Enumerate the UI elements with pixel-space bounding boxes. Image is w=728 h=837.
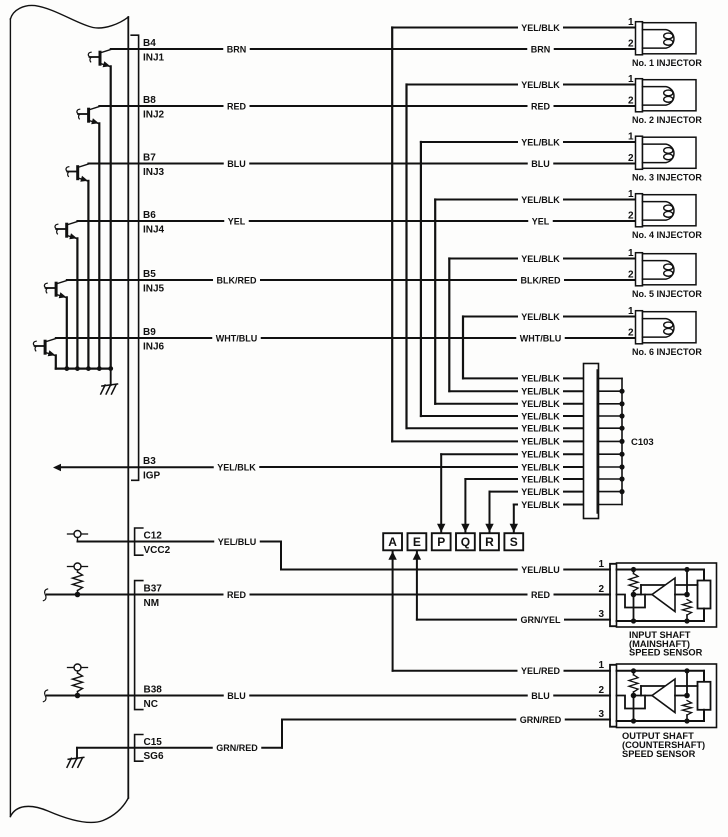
svg-text:BLU: BLU [227,691,246,701]
ECU pin B5/INJ5 label [143,269,165,294]
label YEL/BLK (C103 pin 6) [521,437,560,447]
svg-text:GRN/YEL: GRN/YEL [520,615,561,625]
ground (injector drivers) [101,369,118,394]
wire: Q4 emitter to ground rail [76,238,78,368]
label No. 6 INJECTOR [632,347,702,357]
svg-text:YEL/BLK: YEL/BLK [521,254,560,264]
ECU pin C15/SG6 label [144,737,164,762]
svg-text:YEL/BLU: YEL/BLU [218,537,257,547]
svg-text:SPEED SENSOR: SPEED SENSOR [629,648,703,658]
svg-text:BLU: BLU [227,159,246,169]
label YEL/BLK (C103 pin 4) [521,411,560,421]
svg-text:No. 2 INJECTOR: No. 2 INJECTOR [632,115,702,125]
svg-text:YEL/BLK: YEL/BLK [521,387,560,397]
svg-text:NM: NM [144,598,160,609]
svg-text:No. 5 INJECTOR: No. 5 INJECTOR [632,289,702,299]
svg-text:YEL/BLK: YEL/BLK [521,500,560,510]
node E (off-page connector box) [408,533,427,550]
svg-text:B37: B37 [144,584,163,595]
svg-text:1: 1 [598,660,604,671]
svg-text:B8: B8 [143,95,156,106]
C103 common bus (right side) [599,378,625,504]
connector bracket C15 [135,735,143,762]
wire BLK/RED: ECU B5 to No.5 injector pin 2 [67,275,636,285]
svg-text:YEL/BLK: YEL/BLK [521,474,560,484]
svg-text:BLK/RED: BLK/RED [217,275,257,285]
svg-text:1: 1 [628,131,634,142]
transistor Q6 (injector driver INJ6) [33,339,55,357]
label YEL/BLK (C103 pin 1) [521,374,560,384]
pin number 2 of No.5 injector [628,269,634,280]
wire: C103 pin 4 lead [564,415,584,417]
injector coil: No. 1 INJECTOR [636,22,697,55]
svg-text:1: 1 [628,17,634,28]
svg-text:2: 2 [628,210,634,221]
pull-up: supply circle + resistor (B37) [68,563,88,597]
svg-text:RED: RED [531,101,551,111]
label YEL/BLK (C103 pin 5) [521,424,560,434]
svg-text:INJ5: INJ5 [143,283,165,294]
wire YEL/BLK: C103 to box S [510,505,518,533]
svg-text:1: 1 [628,189,634,200]
wire: C103 pin 11 lead [564,504,584,506]
pin number 1 of No.1 injector [628,17,634,28]
svg-text:No. 4 INJECTOR: No. 4 INJECTOR [632,230,702,240]
svg-text:BRN: BRN [531,44,551,54]
svg-text:C103: C103 [631,437,654,448]
svg-text:Q: Q [461,535,470,549]
transistor Q2 (injector driver INJ2) [77,107,99,125]
wire YEL/BLK: C103 to box P [437,454,517,532]
svg-text:B3: B3 [143,456,156,467]
wire YEL/BLU (continues): step down and to sensor [281,542,610,575]
node P (off-page connector box) [432,533,451,550]
input shaft speed sensor U1 bracket [610,564,617,626]
ground (C15 SG6) [67,748,84,768]
svg-text:BRN: BRN [227,44,247,54]
node Q (off-page connector box) [456,533,475,550]
svg-text:3: 3 [598,609,604,620]
svg-text:INJ2: INJ2 [143,109,165,120]
svg-text:2: 2 [628,269,634,280]
wire: C103 pin 1 lead [564,377,584,379]
VCC2 internal supply circle (C12) [68,531,88,542]
ECU pin B6/INJ4 label [143,210,165,235]
pin number 1 of input shaft speed sensor U1 [598,559,604,570]
transistor Q5 (injector driver INJ5) [44,281,66,299]
svg-text:No. 6 INJECTOR: No. 6 INJECTOR [632,347,702,357]
wire: C103 pin 5 lead [564,427,584,429]
svg-text:NC: NC [144,699,158,710]
ECU pin B8/INJ2 label [143,95,165,120]
svg-text:B4: B4 [143,38,156,49]
pin number 1 of No.6 injector [628,306,634,317]
pin number 1 of No.4 injector [628,189,634,200]
svg-text:YEL/BLK: YEL/BLK [521,487,560,497]
svg-text:RED: RED [227,590,247,600]
svg-text:RED: RED [227,101,247,111]
wire YEL/BLK: C103 to box R [485,492,517,533]
wire GRN/RED: C15 SG6 to output shaft sensor pin 3 [77,743,282,753]
connector C103 body [584,364,599,519]
ECU pin B4/INJ1 label [143,38,165,63]
wire: Q5 emitter to ground rail [66,297,68,368]
wire YEL/RED: box A to output shaft sensor pin 1 [388,551,610,676]
node R (off-page connector box) [480,533,499,550]
connector bracket (B4-B3 pin group) [131,35,138,480]
label No. 4 INJECTOR [632,230,702,240]
pin number 2 of No.6 injector [628,327,634,338]
label No. 5 INJECTOR [632,289,702,299]
node: common emitter rail of Q1-Q6 [56,366,113,371]
wire YEL/BLK: No.1 injector pin 1 to C103 bus [392,23,635,442]
svg-text:VCC2: VCC2 [144,545,171,556]
svg-text:BLU: BLU [531,691,550,701]
wire YEL/BLK: B3 IGP to C103 (with off-page arrow) [53,462,517,472]
svg-text:YEL/BLK: YEL/BLK [217,462,256,472]
ECU pin B3/IGP label [143,456,161,481]
svg-text:B9: B9 [143,327,156,338]
svg-text:YEL: YEL [532,216,550,226]
svg-text:1: 1 [628,306,634,317]
pin number 2 of No.4 injector [628,210,634,221]
wire GRN/YEL: box E to input shaft sensor pin 3 [413,551,610,625]
ECU torn-page boundary [10,5,128,822]
svg-text:WHT/BLU: WHT/BLU [520,333,562,343]
svg-text:No. 1 INJECTOR: No. 1 INJECTOR [632,58,702,68]
label YEL/BLK (C103 pin 8) [521,462,560,472]
svg-text:INJ4: INJ4 [143,224,165,235]
svg-text:A: A [388,535,397,549]
pin number 2 of No.1 injector [628,38,634,49]
svg-text:INJ6: INJ6 [143,341,165,352]
label C103 [631,437,654,448]
pin number 2 of No.2 injector [628,95,634,106]
svg-text:YEL/BLK: YEL/BLK [521,399,560,409]
svg-text:YEL/BLK: YEL/BLK [521,137,560,147]
svg-text:YEL: YEL [228,216,246,226]
injector coil: No. 3 INJECTOR [636,136,697,169]
input shaft speed sensor U1 body [617,563,717,627]
svg-text:BLU: BLU [531,159,550,169]
label YEL/BLK (C103 pin 3) [521,399,560,409]
injector coil: No. 4 INJECTOR [636,194,697,227]
wire: Q6 emitter to ground rail [55,355,57,368]
svg-text:INJ1: INJ1 [143,52,165,63]
wire YEL/BLK: No.5 injector pin 1 to C103 bus [449,254,635,391]
wire YEL/BLK: C103 to box Q [461,479,517,532]
svg-text:E: E [413,535,421,549]
svg-text:YEL/BLK: YEL/BLK [521,424,560,434]
output shaft speed sensor U2 body [617,664,717,728]
wire BLU: ECU B7 to No.3 injector pin 2 [88,159,635,169]
svg-text:C15: C15 [144,737,163,748]
label YEL/BLK (C103 pin 7) [521,450,560,460]
pin number 2 of input shaft speed sensor U1 [598,584,604,595]
svg-text:BLK/RED: BLK/RED [521,275,561,285]
svg-text:YEL/BLK: YEL/BLK [521,312,560,322]
wire: C103 pin 10 lead [564,491,584,493]
pin number 1 of No.2 injector [628,74,634,85]
svg-text:YEL/BLK: YEL/BLK [521,462,560,472]
wire RED: ECU B8 to No.2 injector pin 2 [99,101,635,111]
svg-text:No. 3 INJECTOR: No. 3 INJECTOR [632,173,702,183]
pin number 3 of output shaft speed sensor U2 [598,709,604,720]
svg-text:R: R [485,535,494,549]
svg-text:SPEED SENSOR: SPEED SENSOR [622,749,696,759]
svg-text:YEL/BLK: YEL/BLK [521,374,560,384]
svg-text:B38: B38 [144,685,163,696]
pin number 2 of output shaft speed sensor U2 [598,685,604,696]
svg-text:B6: B6 [143,210,156,221]
label YEL/BLK (C103 pin 11) [521,500,560,510]
transistor Q1 (injector driver INJ1) [88,50,110,68]
svg-text:2: 2 [628,38,634,49]
svg-text:IGP: IGP [143,470,161,481]
svg-text:YEL/BLK: YEL/BLK [521,437,560,447]
svg-text:2: 2 [628,153,634,164]
svg-text:GRN/RED: GRN/RED [520,715,562,725]
injector coil: No. 5 INJECTOR [636,253,697,286]
label No. 3 INJECTOR [632,173,702,183]
node S (off-page connector box) [504,533,523,550]
label YEL/BLK (C103 pin 9) [521,474,560,484]
node A (off-page connector box) [383,533,402,550]
transistor Q4 (injector driver INJ4) [55,222,77,240]
wire YEL/BLK: No.3 injector pin 1 to C103 bus [421,137,636,416]
injector coil: No. 6 INJECTOR [636,311,697,344]
label YEL/BLK (C103 pin 10) [521,487,560,497]
pull-up: supply circle + resistor (B38) [68,664,88,698]
svg-text:B5: B5 [143,269,156,280]
svg-text:YEL/BLK: YEL/BLK [521,23,560,33]
svg-text:GRN/RED: GRN/RED [216,743,258,753]
svg-text:INJ3: INJ3 [143,167,165,178]
ECU pin B38/NC label [144,685,163,710]
wire YEL/BLK: No.2 injector pin 1 to C103 bus [407,80,636,428]
svg-text:1: 1 [628,248,634,259]
ECU pin C12/VCC2 label [144,531,171,556]
svg-text:B7: B7 [143,153,156,164]
connector bracket C12 [135,528,143,555]
wire YEL/BLK: No.4 injector pin 1 to C103 bus [435,195,635,404]
wire: Q1 emitter to ground rail [110,66,112,368]
wire GRN/RED (continues): step up and to sensor [282,715,610,748]
svg-text:YEL/BLK: YEL/BLK [521,195,560,205]
svg-text:YEL/BLU: YEL/BLU [521,565,560,575]
svg-text:3: 3 [598,709,604,720]
svg-text:P: P [437,535,445,549]
wire YEL/BLU: C12 VCC2 to input shaft sensor pin 1 [78,537,282,547]
svg-text:2: 2 [598,685,604,696]
pin number 3 of input shaft speed sensor U1 [598,609,604,620]
pin number 1 of No.5 injector [628,248,634,259]
svg-text:2: 2 [628,95,634,106]
wire YEL/BLK: No.6 injector pin 1 to C103 bus [463,312,636,379]
wire: C103 pin 8 lead [564,466,584,468]
label output shaft speed sensor U2 [622,731,705,759]
wire BRN: ECU B4 to No.1 injector pin 2 [111,44,636,54]
svg-text:2: 2 [628,327,634,338]
label No. 2 INJECTOR [632,115,702,125]
pin number 2 of No.3 injector [628,153,634,164]
svg-text:C12: C12 [144,531,163,542]
svg-text:SG6: SG6 [144,751,164,762]
wire WHT/BLU: ECU B9 to No.6 injector pin 2 [56,333,636,343]
transistor Q3 (injector driver INJ3) [66,164,88,182]
output shaft speed sensor U2 bracket [610,665,617,727]
label input shaft speed sensor U1 [629,630,703,658]
wire: Q3 emitter to ground rail [87,181,89,369]
wire YEL: ECU B6 to No.4 injector pin 2 [77,216,635,226]
injector coil: No. 2 INJECTOR [636,79,697,112]
wire: C103 pin 9 lead [564,478,584,480]
wire: Q2 emitter to ground rail [98,123,100,368]
svg-text:WHT/BLU: WHT/BLU [216,333,258,343]
connector bracket B37-B38 [135,581,143,710]
svg-text:YEL/RED: YEL/RED [521,666,561,676]
svg-text:2: 2 [598,584,604,595]
wire: C103 pin 6 lead [564,440,584,442]
wire: C103 pin 3 lead [564,403,584,405]
pin number 1 of output shaft speed sensor U2 [598,660,604,671]
wire: C103 pin 7 lead [564,453,584,455]
svg-text:YEL/BLK: YEL/BLK [521,411,560,421]
svg-text:YEL/BLK: YEL/BLK [521,450,560,460]
svg-text:1: 1 [628,74,634,85]
svg-text:S: S [510,535,518,549]
wire RED: B37 NM to input shaft sensor pin 2 [43,589,610,601]
wire: C103 pin 2 lead [564,390,584,392]
svg-text:1: 1 [598,559,604,570]
ECU pin B9/INJ6 label [143,327,165,352]
ECU pin B37/NM label [144,584,163,609]
ECU pin B7/INJ3 label [143,153,165,178]
svg-text:RED: RED [531,590,551,600]
label YEL/BLK (C103 pin 2) [521,387,560,397]
wire BLU: B38 NC to output shaft sensor pin 2 [43,690,610,702]
svg-text:YEL/BLK: YEL/BLK [521,80,560,90]
label No. 1 INJECTOR [632,58,702,68]
pin number 1 of No.3 injector [628,131,634,142]
